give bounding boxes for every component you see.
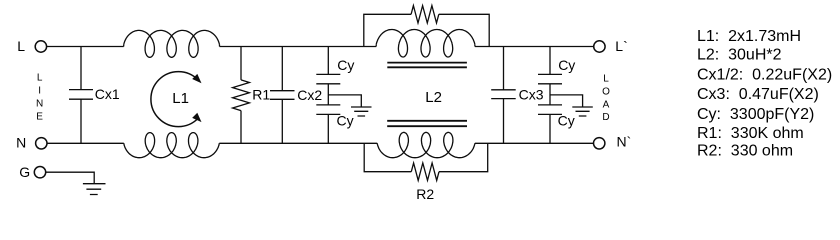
wire bottom rail right segment	[475, 142, 593, 144]
core lines bottom	[387, 121, 467, 126]
terminal Lprime	[594, 41, 605, 52]
capacitor Cx2	[270, 47, 295, 144]
svg-text:Cx2: Cx2	[297, 87, 322, 103]
wire bottom rail L segment	[47, 142, 124, 144]
wire G	[46, 172, 94, 183]
svg-text:L1: 2x1.73mH: L1: 2x1.73mH	[697, 28, 801, 45]
capacitor Cx3	[491, 47, 516, 144]
resistor R2	[364, 143, 411, 171]
svg-text:N: N	[36, 99, 43, 110]
svg-text:L: L	[603, 74, 609, 85]
wire Cy midpoint tap left	[328, 95, 361, 107]
capacitor Cy bottom-right	[538, 105, 562, 143]
svg-text:L2: L2	[425, 89, 442, 106]
ground right Cy	[572, 107, 593, 116]
svg-text:L: L	[37, 73, 43, 84]
terminal L	[35, 41, 46, 52]
svg-text:O: O	[602, 87, 610, 98]
terminal Nprime	[594, 138, 605, 149]
core lines top	[387, 63, 467, 68]
resistor (top damping) of L2	[364, 14, 411, 46]
inductor L1 top winding	[123, 45, 125, 47]
svg-text:R2: 330 ohm: R2: 330 ohm	[697, 143, 793, 160]
terminal N	[36, 138, 47, 149]
capacitor Cy top-left	[316, 47, 340, 105]
svg-text:R2: R2	[416, 186, 434, 202]
svg-text:L1: L1	[172, 90, 189, 107]
svg-text:Cx3: 0.47uF(X2): Cx3: 0.47uF(X2)	[697, 86, 819, 103]
svg-text:Cy: Cy	[558, 112, 575, 128]
wire bottom rail middle segment	[219, 142, 377, 144]
svg-text:Cy: Cy	[337, 57, 354, 73]
capacitor Cy top-right	[538, 47, 562, 105]
svg-text:D: D	[602, 112, 609, 123]
resistor R1	[240, 47, 242, 80]
inductor L2 top winding	[375, 45, 377, 47]
svg-text:I: I	[38, 86, 41, 97]
svg-text:Cx3: Cx3	[519, 86, 544, 102]
svg-text:R1: 330K ohm: R1: 330K ohm	[697, 125, 804, 142]
svg-text:A: A	[603, 99, 610, 110]
svg-text:L: L	[17, 38, 25, 54]
capacitor Cx1	[69, 47, 93, 144]
wire top rail right segment	[475, 46, 594, 48]
wire Cy midpoint tap right	[550, 95, 583, 107]
svg-text:Cy: Cy	[337, 112, 354, 128]
wire top rail L segment	[47, 46, 124, 48]
ground chassis G	[83, 184, 106, 195]
svg-text:R1: R1	[252, 86, 270, 102]
svg-text:Cx1/2: 0.22uF(X2): Cx1/2: 0.22uF(X2)	[697, 66, 832, 83]
svg-text:Cx1: Cx1	[95, 86, 120, 102]
ground left Cy	[351, 107, 372, 116]
capacitor Cy bottom-left	[316, 105, 340, 143]
svg-text:N`: N`	[617, 134, 632, 150]
inductor L1 bottom winding	[124, 133, 220, 158]
svg-text:N: N	[16, 135, 26, 151]
terminal G	[34, 167, 45, 178]
svg-text:Cy: Cy	[558, 57, 575, 73]
inductor L2 bottom winding	[377, 132, 475, 157]
L1 circulation arrow	[151, 72, 198, 127]
svg-text:G: G	[19, 164, 30, 180]
svg-text:E: E	[36, 112, 43, 123]
wire top rail middle segment	[220, 46, 377, 48]
svg-text:Cy: 3300pF(Y2): Cy: 3300pF(Y2)	[697, 106, 814, 123]
svg-text:L`: L`	[615, 38, 627, 54]
svg-text:L2: 30uH*2: L2: 30uH*2	[697, 47, 782, 64]
